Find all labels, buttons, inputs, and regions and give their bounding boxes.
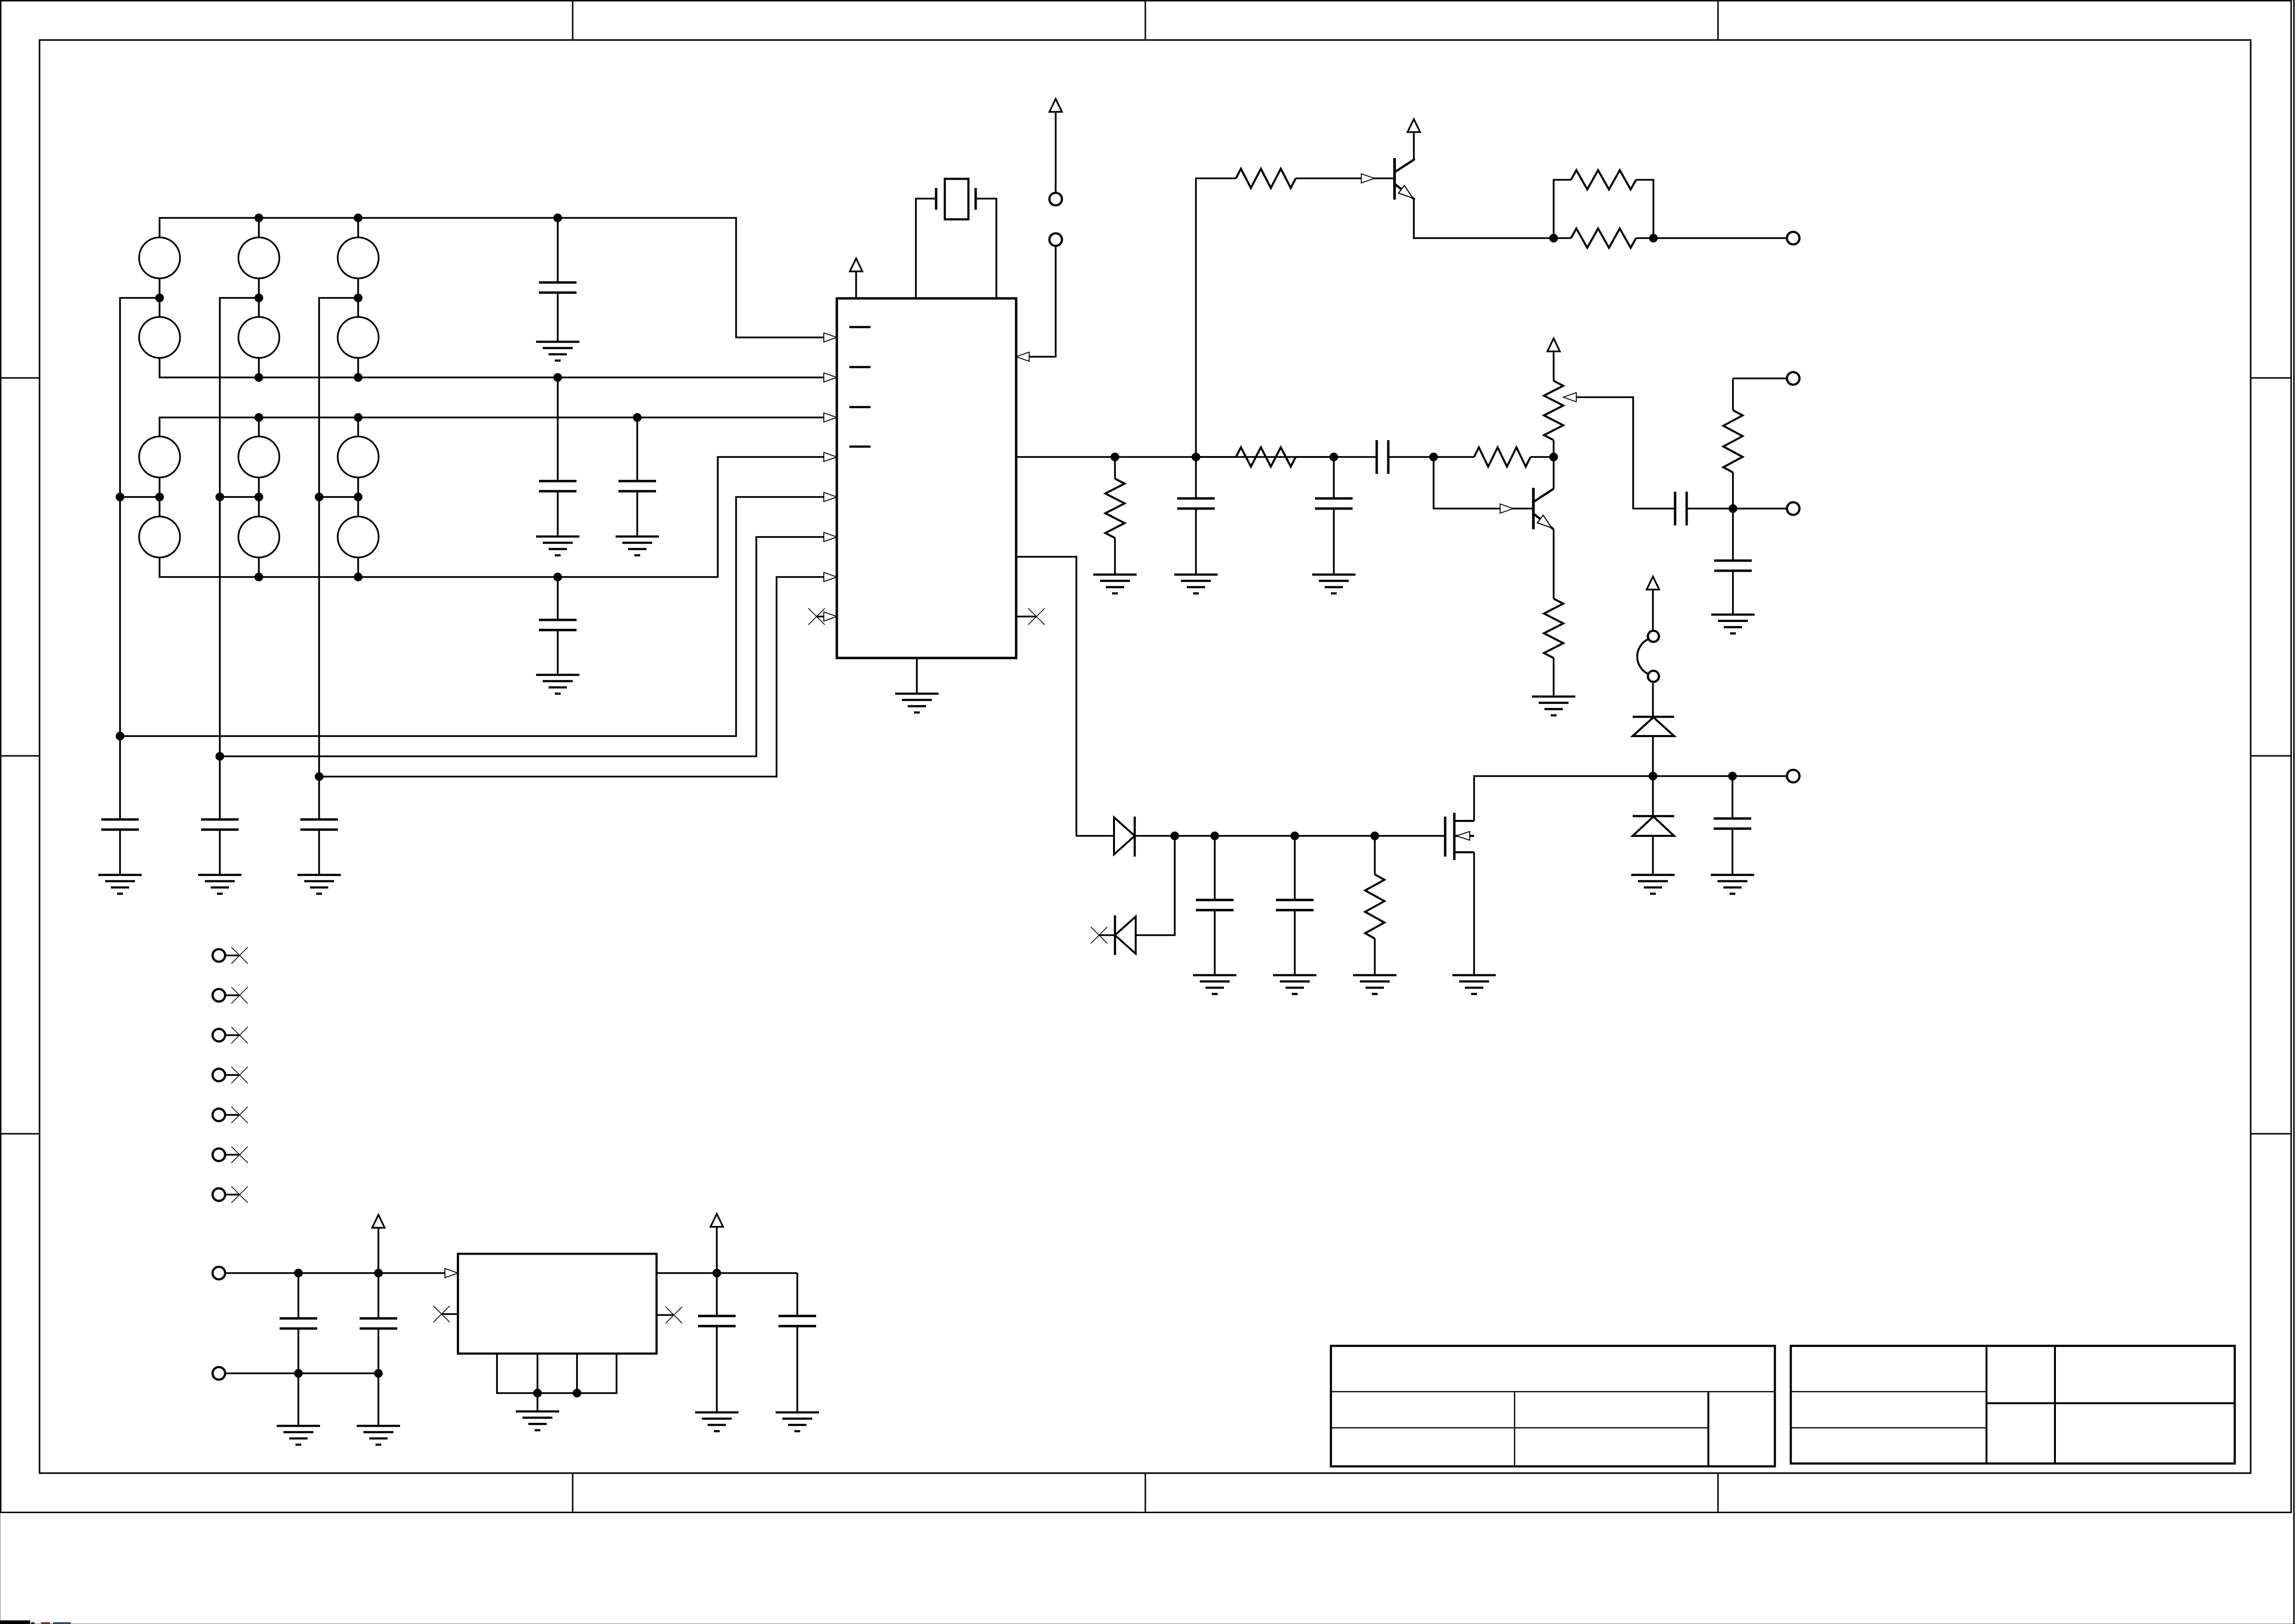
regulator U2: [445, 1254, 657, 1354]
ground: [536, 675, 579, 694]
port P6: [213, 1367, 225, 1380]
node junctions: [116, 214, 642, 781]
wire: [1414, 200, 1787, 238]
U2 ground pins: [497, 1354, 617, 1411]
jumper link JP1: [1637, 631, 1659, 682]
wire: [916, 199, 996, 298]
transistor Q3 MOSFET: [1445, 813, 1474, 860]
node junctions: [1550, 234, 1658, 242]
microphone MK6a: [338, 437, 379, 478]
ground: [1273, 975, 1316, 994]
capacitor C2: [539, 377, 577, 537]
potentiometer R6: [1544, 381, 1576, 457]
port P2: [1787, 372, 1799, 385]
power VCC: [711, 1214, 723, 1273]
ground: [1312, 575, 1356, 593]
op-amp U1 main IC: [837, 298, 1016, 658]
ground: [357, 1426, 400, 1445]
ground: [1093, 575, 1137, 593]
capacitor C8: [1177, 457, 1215, 575]
wire wiper: [1576, 397, 1675, 509]
wire: [225, 1272, 458, 1274]
resistor R3: [1236, 169, 1296, 188]
capacitor C11: [1675, 492, 1733, 525]
ground: [536, 537, 579, 555]
node junctions: [1550, 453, 1558, 461]
port P3: [1787, 502, 1799, 515]
capacitor C9: [1315, 457, 1353, 575]
resistor R10: [1365, 836, 1384, 975]
connector pin J2-3: [213, 1027, 248, 1043]
diode D2: [1091, 915, 1136, 955]
capacitor C1: [539, 218, 577, 342]
title block: [1331, 1346, 2235, 1466]
connector pin J2-4: [213, 1067, 248, 1083]
resistor R4: [1554, 170, 1653, 238]
ground: [536, 342, 579, 361]
ground: [1353, 975, 1396, 994]
U1 input pin arrows: [824, 333, 837, 582]
wire: [1016, 246, 1056, 362]
wire: [1016, 557, 1114, 836]
capacitor C13: [1196, 836, 1234, 975]
microphone MK1b: [139, 317, 180, 358]
capacitor C17: [360, 1273, 397, 1426]
diode D3: [1633, 683, 1674, 776]
power VCC: [1547, 338, 1560, 381]
crystal Y1: [936, 179, 976, 219]
microphone MK1a: [139, 238, 180, 279]
transistor Q2: [1500, 488, 1554, 529]
ground: [1711, 615, 1755, 633]
port P5: [213, 1267, 225, 1279]
resistor R5: [1554, 228, 1653, 248]
power VCC: [372, 1215, 385, 1273]
connector J1: [1049, 193, 1062, 246]
capacitor C14: [1276, 836, 1314, 975]
capacitor C3: [618, 417, 656, 537]
capacitor C7: [300, 777, 338, 875]
U2 no-connect left: [433, 1306, 458, 1322]
resistor R2: [1196, 447, 1334, 467]
microphone MK3b: [338, 317, 379, 358]
ground: [516, 1411, 559, 1430]
capacitor C4: [539, 577, 577, 675]
connector pin J2-1: [213, 947, 248, 964]
wire: [1553, 457, 1555, 599]
wire: [1733, 377, 1787, 379]
wire: [657, 1272, 797, 1274]
ground: [297, 875, 341, 894]
wire: [1474, 776, 1787, 975]
U1 no-connect right pin: [1016, 608, 1045, 625]
ground: [1452, 975, 1496, 994]
capacitor C19: [778, 1273, 816, 1412]
wire: [1733, 508, 1787, 510]
ground: [616, 537, 659, 555]
node junctions: [1111, 453, 1438, 461]
transistor Q1: [1361, 158, 1415, 200]
wire: [225, 1372, 378, 1374]
power VCC: [1408, 119, 1420, 159]
ground: [98, 875, 142, 894]
ground: [776, 1412, 819, 1431]
ground: [1532, 697, 1575, 715]
node junctions: [295, 1269, 383, 1378]
microphone MK5b: [239, 517, 280, 558]
microphone MK2a: [239, 238, 280, 279]
capacitor C18: [698, 1273, 736, 1412]
U1 no-connect pin 8: [808, 608, 837, 625]
wire: [120, 218, 837, 777]
ground: [277, 1426, 320, 1445]
ground: [198, 875, 242, 894]
diode D1: [1114, 817, 1135, 857]
capacitor C16: [280, 1273, 317, 1426]
capacitor C12: [1714, 509, 1752, 615]
U1 VCC pin: [850, 258, 862, 298]
capacitor C15: [1714, 776, 1751, 875]
connector pin J2-6: [213, 1147, 248, 1163]
ground: [1711, 875, 1754, 894]
U2 no-connect right: [657, 1307, 682, 1323]
ground U1: [895, 658, 939, 712]
ground: [695, 1412, 738, 1431]
power VCC: [1049, 99, 1062, 193]
power VCC: [1647, 577, 1659, 630]
port P4: [1787, 770, 1799, 782]
node junctions: [1171, 832, 1379, 840]
ground: [1631, 875, 1675, 894]
connector pin J2-5: [213, 1107, 248, 1123]
resistor R1: [1105, 457, 1125, 575]
resistor R9: [1723, 378, 1743, 509]
resistor R8: [1544, 599, 1563, 697]
port P1: [1787, 232, 1799, 244]
capacitor C5: [101, 736, 139, 875]
ground: [1174, 575, 1218, 593]
microphone MK5a: [239, 437, 280, 478]
wire: [1016, 178, 1434, 457]
microphone MK4b: [139, 517, 180, 558]
wire: [1434, 457, 1533, 509]
capacitor C10: [1377, 440, 1388, 474]
node junctions: [1729, 505, 1737, 513]
diode D4: [1633, 776, 1674, 875]
microphone MK2b: [239, 317, 280, 358]
wire: [1135, 836, 1445, 935]
microphone MK4a: [139, 437, 180, 478]
ground: [1193, 975, 1236, 994]
node junctions: [713, 1269, 721, 1277]
microphone MK6b: [338, 517, 379, 558]
microphone MK3a: [338, 238, 379, 279]
node junctions: [1649, 772, 1737, 780]
capacitor C6: [201, 756, 239, 875]
connector pin J2-2: [213, 987, 248, 1004]
resistor R7: [1434, 447, 1554, 467]
connector pin J2-7: [213, 1186, 248, 1203]
